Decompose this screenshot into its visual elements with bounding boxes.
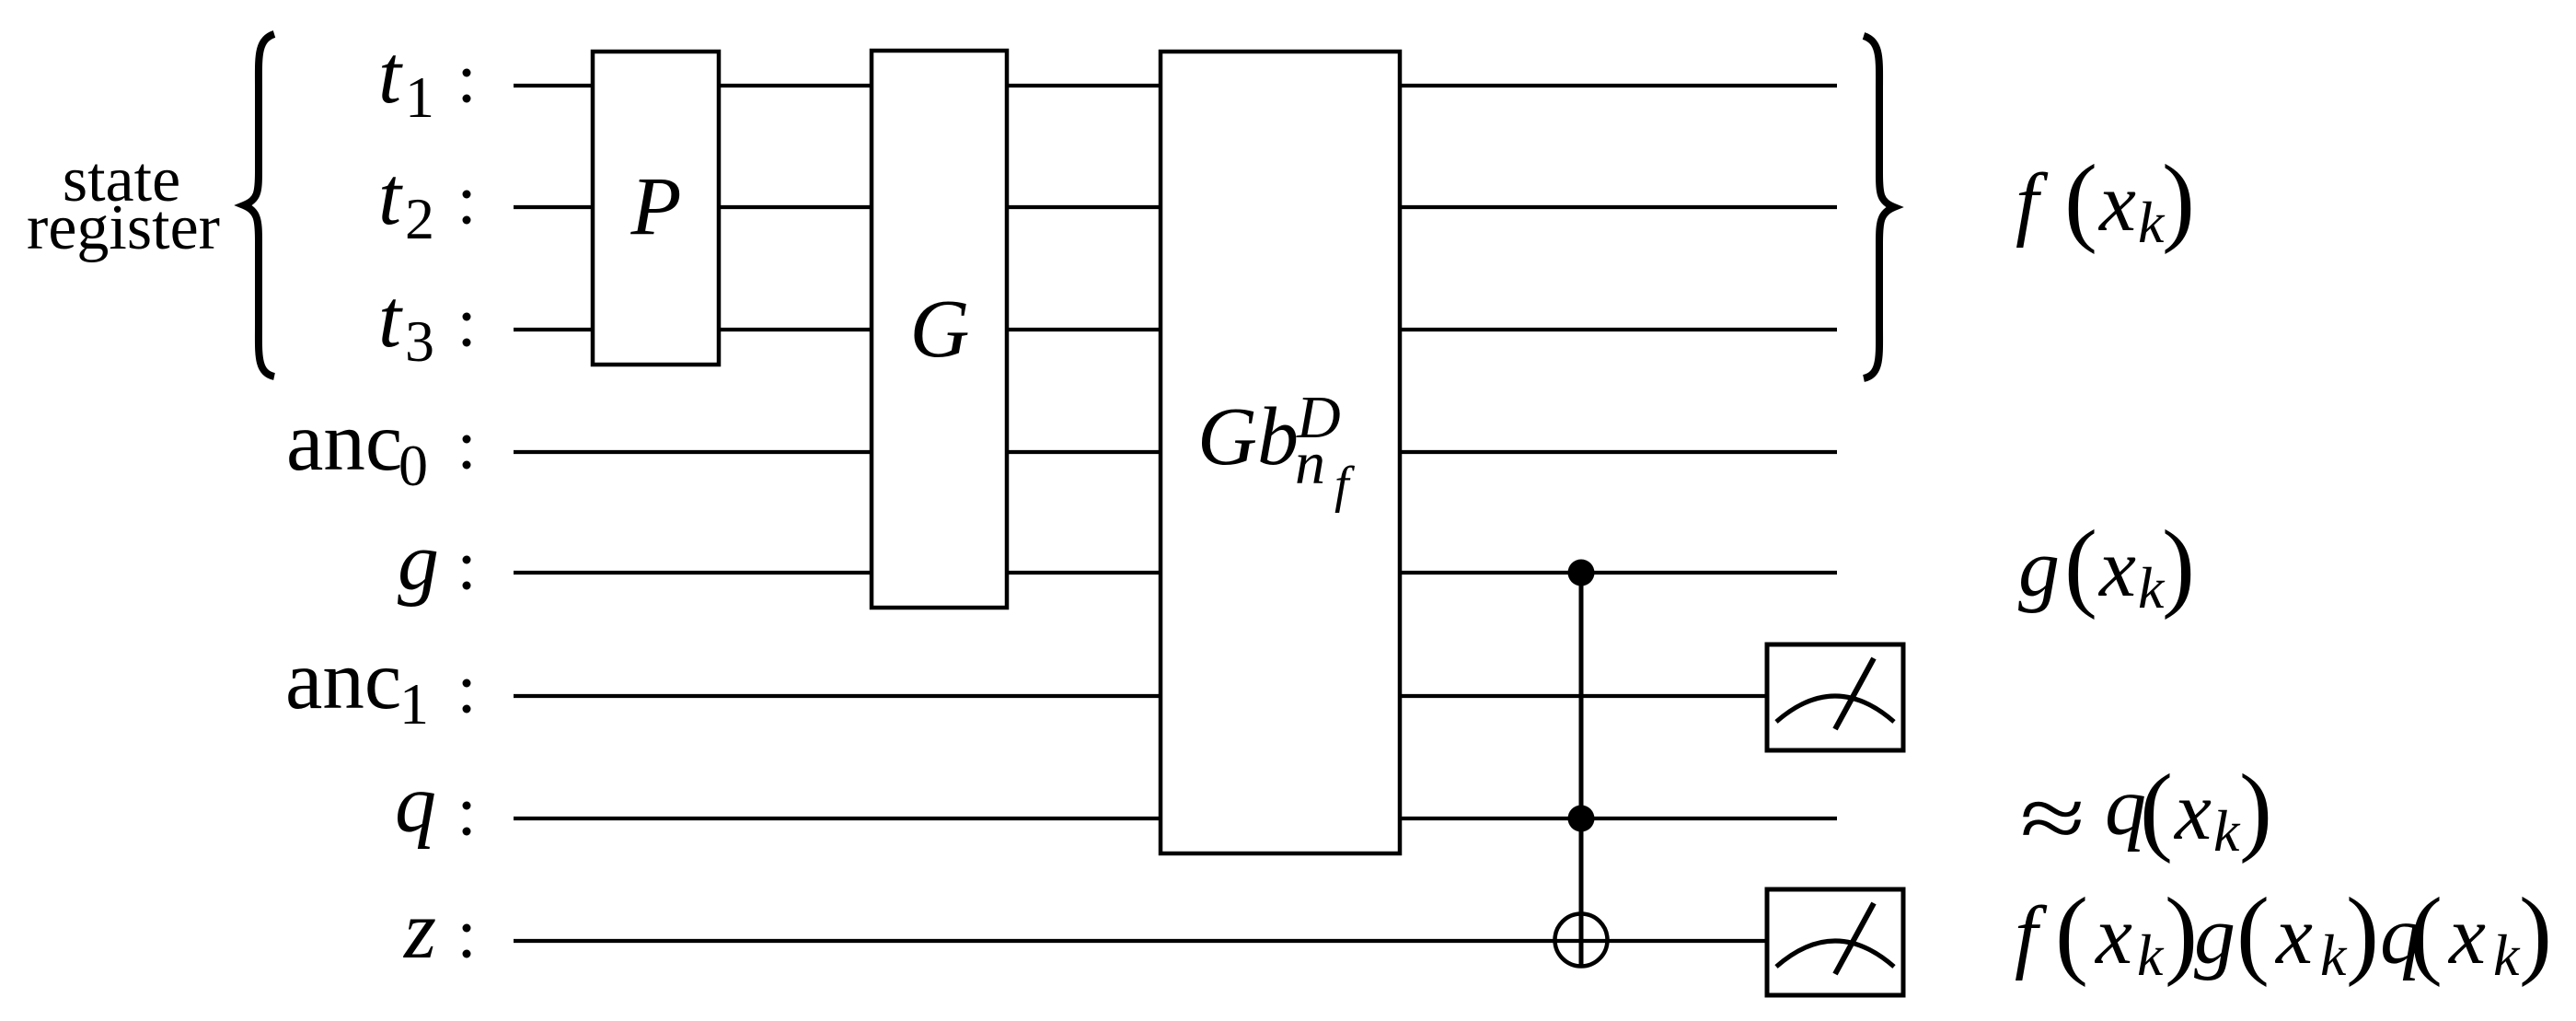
svg-text:2: 2 bbox=[405, 186, 434, 251]
control dot on q bbox=[1568, 806, 1595, 832]
svg-text:x: x bbox=[2447, 890, 2486, 981]
wire q bbox=[514, 817, 1837, 820]
svg-text:1: 1 bbox=[399, 671, 429, 737]
svg-text:Gb: Gb bbox=[1197, 391, 1299, 482]
svg-text:≈: ≈ bbox=[2020, 768, 2085, 867]
gate P box bbox=[593, 52, 719, 365]
output label f(xk)g(xk)q(xk) bbox=[2015, 878, 2552, 988]
svg-text:anc: anc bbox=[286, 395, 402, 488]
wire t2 bbox=[514, 205, 1837, 209]
meter z arc bbox=[1776, 941, 1894, 967]
colon t2 bbox=[463, 191, 471, 199]
svg-text:): ) bbox=[2162, 145, 2195, 255]
svg-text:(: ( bbox=[2140, 755, 2173, 864]
svg-text:x: x bbox=[2274, 890, 2313, 981]
colon t3 bbox=[463, 313, 471, 321]
svg-text:k: k bbox=[2213, 798, 2241, 864]
svg-text:x: x bbox=[2094, 890, 2132, 981]
svg-text:g: g bbox=[2018, 523, 2060, 614]
svg-text:k: k bbox=[2137, 922, 2165, 988]
svg-text:(: ( bbox=[2409, 878, 2443, 988]
svg-text:x: x bbox=[2097, 157, 2136, 249]
wire g bbox=[514, 571, 1837, 574]
meter z box bbox=[1767, 889, 1903, 995]
colon t1 bbox=[463, 69, 471, 77]
svg-text:g: g bbox=[398, 516, 439, 608]
svg-text:x: x bbox=[2097, 523, 2136, 614]
svg-text:(: ( bbox=[2236, 878, 2270, 988]
svg-text:0: 0 bbox=[399, 433, 428, 498]
svg-text:register: register bbox=[27, 192, 220, 263]
colon z bbox=[463, 924, 471, 933]
output label approx q(xk) bbox=[2020, 755, 2272, 868]
meter anc1 needle bbox=[1835, 658, 1874, 729]
svg-text:): ) bbox=[2239, 755, 2272, 864]
gate Gb box bbox=[1161, 52, 1400, 853]
colon anc0 bbox=[463, 435, 471, 444]
meter anc1 box bbox=[1767, 644, 1903, 750]
meter z needle bbox=[1835, 903, 1874, 974]
control dot on g bbox=[1568, 560, 1595, 586]
svg-text:G: G bbox=[910, 284, 970, 375]
output label g(xk) bbox=[2018, 511, 2195, 621]
svg-text:): ) bbox=[2346, 878, 2379, 988]
output label f(xk) bbox=[2016, 145, 2195, 255]
wire anc0 bbox=[514, 450, 1837, 454]
svg-text:(: ( bbox=[2064, 511, 2097, 621]
svg-text:1: 1 bbox=[405, 64, 434, 130]
svg-text:P: P bbox=[630, 161, 682, 252]
left brace for state register bbox=[244, 34, 274, 377]
wire z bbox=[514, 939, 1776, 943]
svg-text:3: 3 bbox=[405, 308, 434, 374]
svg-text:x: x bbox=[2173, 766, 2212, 857]
svg-text:t: t bbox=[378, 151, 403, 242]
svg-text:k: k bbox=[2493, 922, 2521, 988]
svg-text:(: ( bbox=[2055, 878, 2088, 988]
colon q bbox=[463, 802, 471, 810]
svg-text:anc: anc bbox=[285, 633, 401, 726]
svg-text:t: t bbox=[378, 29, 403, 121]
svg-text:k: k bbox=[2320, 922, 2348, 988]
wire anc1 bbox=[514, 694, 1776, 698]
svg-text:z: z bbox=[402, 885, 436, 976]
wire t1 bbox=[514, 84, 1837, 87]
right brace for f(xk) bbox=[1864, 36, 1894, 378]
svg-text:n: n bbox=[1295, 430, 1325, 497]
CNOT target on z bbox=[1555, 914, 1608, 967]
wire t3 bbox=[514, 328, 1837, 331]
svg-text:g: g bbox=[2194, 890, 2235, 981]
svg-text:(: ( bbox=[2064, 145, 2097, 255]
svg-text:): ) bbox=[2519, 878, 2552, 988]
gate G box bbox=[872, 51, 1007, 608]
CNOT vertical wire g-q-z bbox=[1579, 573, 1584, 967]
colon g bbox=[463, 556, 471, 564]
svg-text:q: q bbox=[395, 759, 436, 850]
svg-text:): ) bbox=[2165, 878, 2198, 988]
svg-text:t: t bbox=[378, 273, 403, 365]
meter anc1 arc bbox=[1776, 696, 1894, 722]
colon anc1 bbox=[463, 679, 471, 688]
svg-text:): ) bbox=[2162, 511, 2195, 621]
